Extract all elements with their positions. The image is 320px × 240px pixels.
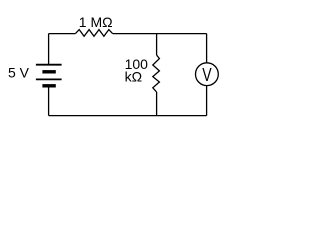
svg-text:kΩ: kΩ: [125, 69, 142, 85]
svg-text:1 MΩ: 1 MΩ: [79, 14, 113, 30]
svg-text:V: V: [202, 65, 211, 85]
svg-text:5 V: 5 V: [8, 65, 30, 81]
